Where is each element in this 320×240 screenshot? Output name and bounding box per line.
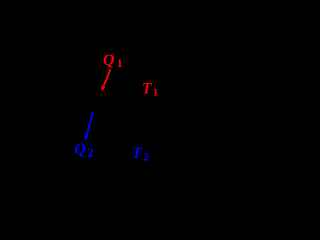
svg-text:Q: Q [103, 52, 115, 69]
svg-text:2: 2 [143, 149, 149, 163]
svg-text:T: T [132, 145, 143, 162]
svg-text:T: T [142, 81, 152, 98]
label T1 [142, 81, 158, 99]
label Q1 [103, 52, 123, 70]
arrow from Q1 [101, 69, 110, 91]
label Q2 [74, 141, 94, 160]
arrow to Q2 [84, 112, 92, 141]
svg-text:2: 2 [87, 145, 94, 160]
svg-text:1: 1 [153, 86, 159, 98]
svg-text:1: 1 [117, 56, 123, 70]
svg-text:Q: Q [74, 141, 86, 158]
label T2 [132, 145, 149, 163]
